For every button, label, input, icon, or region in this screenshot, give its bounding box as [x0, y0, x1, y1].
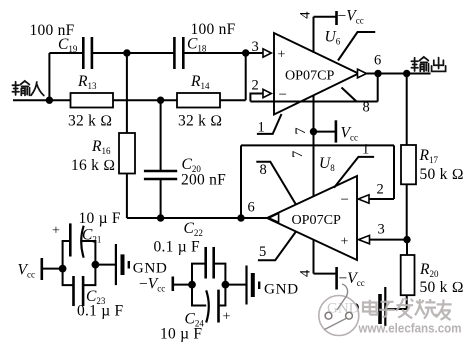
wire U6 pin2 lead: [250, 94, 263, 102]
ground GND3 (under watermark): [380, 287, 385, 326]
wire R17 riser lower: [406, 184, 408, 239]
label pin4 U6 rotated: [298, 11, 314, 19]
svg-text:6: 6: [248, 200, 255, 216]
wire top row segment C: [183, 52, 263, 54]
node input junction: [46, 97, 53, 104]
wire input horizontal: [13, 99, 246, 101]
capacitor C24 plates: [206, 290, 209, 322]
-Vcc plate top: [335, 11, 338, 25]
wire U8 feedback right riser: [393, 145, 395, 199]
svg-text:7: 7: [290, 151, 306, 158]
node U6 output b: [403, 70, 410, 77]
node output text 输出: [411, 57, 445, 72]
svg-text:3: 3: [252, 39, 259, 55]
wire C23 right loop: [83, 265, 95, 286]
wire U8 pin8 stub: [256, 162, 296, 205]
svg-text:16 k Ω: 16 k Ω: [71, 157, 115, 174]
U6 pin3 input arrow: [263, 49, 271, 57]
-Vcc plate bottom: [335, 267, 338, 290]
svg-text:0.1 µ F: 0.1 µ F: [77, 303, 124, 320]
wire top row segment A: [49, 52, 83, 54]
wire U6 feedback bottom: [250, 101, 377, 103]
wire U6 output: [367, 73, 431, 75]
wire to GND2: [225, 284, 246, 286]
svg-text:32 k Ω: 32 k Ω: [178, 113, 222, 130]
watermark logo circle: [319, 284, 359, 336]
wire to GND1: [95, 264, 116, 266]
svg-text:8: 8: [260, 162, 267, 178]
ground GND2: [247, 266, 260, 305]
resistor R13: [71, 93, 114, 108]
svg-text:+: +: [223, 310, 231, 325]
wire U8 feedback top: [241, 144, 394, 146]
svg-text:+: +: [341, 235, 349, 250]
wire C23 loop: [63, 269, 74, 286]
label pin7 U8 rotated: [290, 151, 306, 158]
svg-text:4: 4: [298, 269, 314, 277]
wire C22 right loop: [214, 264, 226, 285]
wire C22 loop: [192, 264, 206, 285]
wire R16 riser: [126, 53, 128, 218]
svg-text:1: 1: [258, 120, 265, 136]
capacitor C18 plates: [173, 37, 176, 69]
node -Vcc a: [188, 281, 196, 289]
node twin-T top mid: [123, 49, 130, 56]
svg-text:32 k Ω: 32 k Ω: [68, 113, 112, 130]
node twin-T bottom mid: [157, 97, 164, 104]
wire U6 pin4 riser: [313, 17, 315, 53]
svg-text:7: 7: [293, 128, 309, 135]
wire R20 riser lower: [386, 295, 407, 309]
svg-text:5: 5: [259, 244, 266, 260]
capacitor C23 plates: [72, 276, 75, 306]
Vcc plate mid: [335, 120, 338, 142]
label pin7 U6 rotated: [293, 128, 309, 135]
U8 pin3 input arrow: [359, 235, 370, 243]
wire top row segment B: [92, 52, 174, 54]
wire U8 feedback left riser: [240, 145, 242, 218]
wire -Vcc left branch: [173, 284, 192, 286]
wire C20 riser upper: [160, 100, 162, 171]
resistor R20: [401, 255, 415, 295]
-Vcc terminal tick left-mid: [172, 277, 175, 292]
wire input riser: [48, 53, 50, 100]
wire U6 top slope stub: [338, 32, 375, 61]
wire U8 pin4 to -Vcc: [314, 273, 337, 275]
svg-text:6: 6: [374, 53, 381, 69]
op-amp U8 triangle: [267, 176, 357, 260]
resistor R17: [401, 145, 416, 184]
wire Vcc mid branch: [314, 131, 336, 133]
wire C21 loop: [63, 241, 71, 269]
svg-text:3: 3: [378, 222, 385, 238]
node U6 output a: [374, 70, 381, 77]
wire C21 right loop: [82, 241, 96, 265]
svg-text:−: −: [341, 192, 349, 208]
capacitor C21 plates: [69, 223, 72, 256]
wire bottom rail: [127, 217, 269, 219]
wire U6 pin1 stub: [257, 114, 282, 134]
svg-text:10 µ F: 10 µ F: [160, 326, 202, 343]
capacitor C22 plates: [204, 247, 207, 279]
U8 pin2 input arrow: [358, 195, 369, 203]
svg-text:+: +: [278, 48, 286, 63]
wire C24 right loop: [219, 285, 226, 306]
ground GND1: [116, 244, 129, 285]
svg-text:www.elecfans.com: www.elecfans.com: [358, 322, 462, 336]
svg-text:GND: GND: [264, 281, 299, 298]
wire U8 pin2 lead: [369, 198, 394, 200]
svg-text:8: 8: [363, 100, 370, 116]
svg-text:2: 2: [252, 78, 259, 94]
node Vcc left a: [59, 265, 67, 273]
wire Vcc left branch: [42, 268, 63, 270]
wire U6 feedback riser to output: [377, 74, 379, 102]
watermark text dianzifashaoyou: [363, 298, 452, 320]
resistor R14: [177, 93, 220, 108]
svg-text:0.1 µ F: 0.1 µ F: [154, 239, 201, 256]
node input text 输入: [12, 81, 43, 96]
node Vcc supply: [310, 128, 317, 135]
svg-text:50 k Ω: 50 k Ω: [420, 166, 464, 183]
U6 pin2 input arrow: [263, 89, 271, 97]
capacitor C20 plates: [144, 170, 177, 173]
wire U8 pin3 lead: [370, 239, 408, 241]
wire U8 pin5 stub: [258, 232, 296, 261]
svg-text:50 k Ω: 50 k Ω: [420, 279, 464, 296]
resistor R16: [119, 133, 135, 174]
wire C24 loop: [192, 285, 206, 306]
node R17 R20 pin3: [403, 236, 410, 243]
svg-text:OP07CP: OP07CP: [292, 212, 342, 228]
wire U8 pin1 stub: [334, 157, 374, 188]
wire U8 pin4 riser: [313, 240, 315, 274]
wire R17 riser upper: [406, 74, 408, 146]
svg-text:+: +: [52, 224, 60, 239]
svg-text:OP07CP: OP07CP: [285, 68, 335, 84]
svg-text:GND: GND: [133, 260, 168, 277]
op-amp U6 triangle: [274, 33, 359, 115]
U8 output arrow: [269, 213, 279, 222]
svg-text:2: 2: [377, 182, 384, 198]
Vcc terminal tick left: [40, 258, 43, 280]
svg-text:10 µ F: 10 µ F: [79, 210, 121, 227]
svg-text:−: −: [279, 87, 287, 103]
svg-text:4: 4: [298, 11, 314, 19]
wire U6 pin8 diagonal: [342, 88, 357, 102]
label pin4 U8 rotated: [298, 269, 314, 277]
node U8 output: [237, 214, 244, 221]
wire supply riser pin7: [313, 96, 315, 197]
wire C20 riser lower: [160, 179, 162, 218]
capacitor C19 plates: [82, 37, 85, 69]
U6 output arrow: [358, 69, 367, 78]
wire node join riser pin3: [245, 53, 247, 100]
svg-text:200 nF: 200 nF: [181, 172, 226, 189]
node Vcc left b: [92, 261, 100, 269]
wire R20 riser upper: [406, 240, 408, 255]
svg-text:1: 1: [362, 142, 369, 158]
wire U6 pin4 to -Vcc: [314, 16, 337, 18]
node -Vcc b: [222, 281, 230, 289]
node join at pin3: [242, 49, 249, 56]
node C20 bottom: [157, 214, 164, 221]
